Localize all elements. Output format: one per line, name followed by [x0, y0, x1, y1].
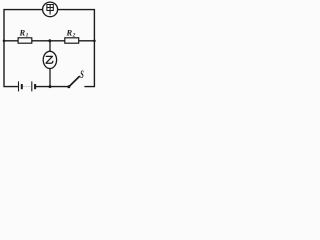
svg-text:1: 1 [26, 33, 29, 39]
svg-text:R: R [19, 27, 26, 37]
svg-text:2: 2 [72, 33, 76, 39]
svg-text:R: R [66, 27, 73, 37]
svg-text:S: S [80, 70, 84, 82]
